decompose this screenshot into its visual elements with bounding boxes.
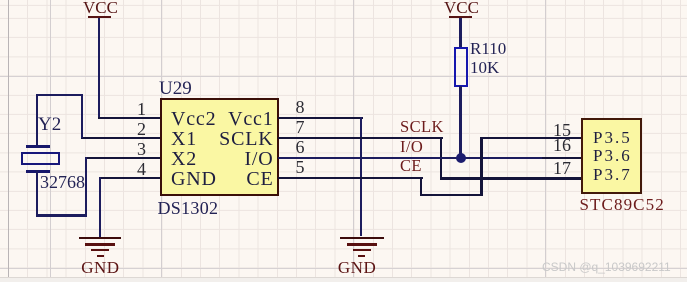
pin name X1 — [171, 129, 197, 149]
wire to pin17 horizontal — [440, 177, 581, 180]
pin name P3.7 — [593, 166, 632, 183]
pin number 15 — [541, 121, 571, 139]
wire SCLK vertical down — [440, 137, 443, 180]
bottom edge strip — [0, 277, 687, 282]
wire pin4 (GND) — [99, 177, 160, 180]
pin number 3 — [118, 140, 146, 158]
pin name Vcc2 — [171, 109, 216, 129]
pin name P3.5 — [593, 129, 632, 146]
wire VCC left vertical — [98, 18, 100, 118]
power symbol VCC (left) — [83, 0, 118, 16]
wire pin4 to GND vertical — [99, 177, 101, 237]
wire pin8 (Vcc1) — [278, 117, 363, 120]
wire pin2 (X1) — [81, 137, 160, 140]
crystal Y2 body — [21, 152, 60, 166]
wire CE vertical up to pin15 — [480, 137, 483, 197]
pin name P3.6 — [593, 147, 632, 164]
pin number 17 — [541, 159, 571, 177]
pin number 7 — [296, 118, 305, 136]
heavy grid line left — [8, 0, 9, 282]
crystal Y2 bottom plate — [26, 170, 50, 172]
pin number 1 — [118, 100, 146, 118]
wire pin7 SCLK horizontal — [278, 137, 443, 140]
power symbol VCC (right) — [444, 0, 479, 16]
wire pin15 horizontal — [480, 137, 581, 140]
wire pin16 stub — [542, 157, 581, 160]
pin name I/O — [200, 149, 274, 169]
pin name CE — [200, 169, 274, 189]
wire CE vertical down — [420, 177, 423, 197]
crystal Y2 top plate — [26, 145, 50, 147]
pin number 8 — [296, 98, 305, 116]
wire CE bottom horizontal — [420, 194, 483, 197]
pin name GND — [171, 169, 217, 189]
watermark — [542, 261, 671, 273]
part name DS1302 — [158, 199, 219, 217]
net label I/O — [400, 139, 423, 156]
label 10K — [470, 59, 499, 76]
mcu STC89C52 box — [581, 118, 642, 194]
wire crystal bottom vertical — [36, 170, 38, 216]
pin number 2 — [118, 120, 146, 138]
designator U29 — [159, 79, 192, 98]
label Y2 — [38, 115, 61, 134]
net label SCLK — [400, 119, 444, 136]
pin number 5 — [296, 158, 305, 176]
op chip U29 DS1302 body — [160, 98, 279, 196]
junction node dot — [456, 153, 466, 163]
pin name X2 — [171, 149, 197, 169]
pin number 16 — [541, 136, 571, 154]
wire vertical to pin2 — [81, 94, 83, 138]
wire resistor to node vertical — [459, 86, 461, 158]
wire crystal bottom horizontal — [36, 214, 87, 216]
pin name Vcc1 — [200, 109, 274, 129]
wire pin6 I/O thin full — [278, 157, 581, 159]
label 32768 — [40, 173, 85, 191]
resistor R110 body — [454, 47, 469, 87]
wire pin5 CE horizontal — [278, 177, 423, 180]
wire vertical up to pin3 — [85, 157, 87, 217]
wire VCC to resistor — [459, 18, 461, 47]
part name STC89C52 — [580, 196, 665, 213]
ground GND (middle) — [340, 237, 384, 239]
wire crystal top horizontal — [36, 94, 83, 96]
wire pin8 to GND vertical — [360, 117, 362, 236]
wire vertical to crystal top — [36, 94, 38, 147]
label R110 — [470, 40, 506, 57]
pin number 4 — [118, 160, 146, 178]
net label CE — [400, 158, 422, 175]
pin number 6 — [296, 138, 305, 156]
ground GND (left) — [79, 237, 121, 239]
wire pin1 (Vcc2) — [98, 117, 160, 120]
wire pin3 (X2) — [86, 157, 161, 160]
pin name SCLK — [200, 129, 274, 149]
